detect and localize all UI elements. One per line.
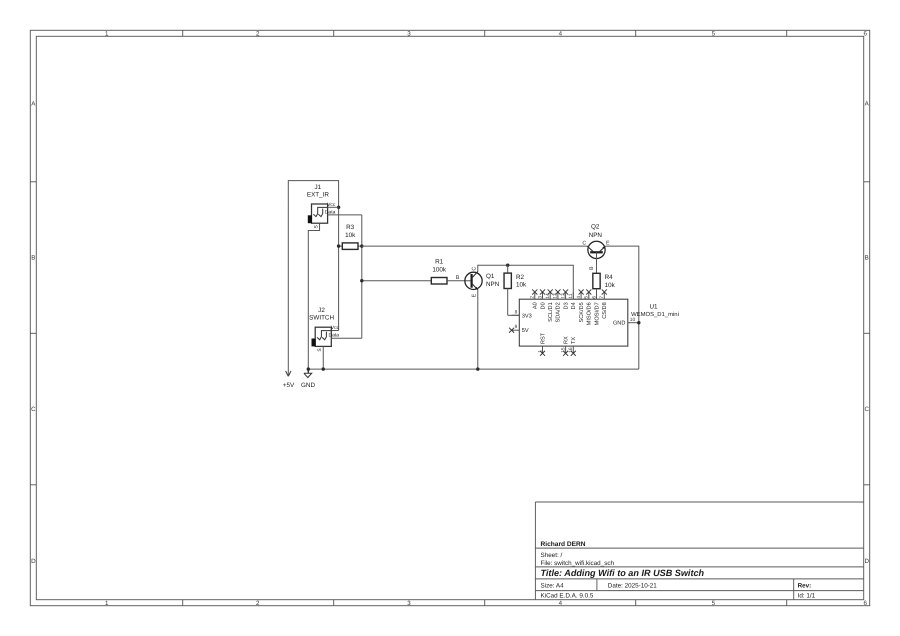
svg-text:6: 6 xyxy=(863,600,867,607)
wire Q1 collector to D4 xyxy=(478,265,574,299)
svg-text:Sheet: /: Sheet: / xyxy=(541,552,563,559)
junction R3 left xyxy=(337,244,340,247)
svg-text:Title: Adding Wifi to an IR US: Title: Adding Wifi to an IR USB Switch xyxy=(541,568,705,578)
U1 pin MISO/D6 (5) no-connect xyxy=(584,289,593,325)
svg-text:C: C xyxy=(864,406,869,413)
svg-text:11: 11 xyxy=(568,293,574,298)
svg-text:NPN: NPN xyxy=(589,232,603,239)
resistor R4 xyxy=(593,273,616,299)
junction U1 GND right rail xyxy=(637,321,640,324)
resistor R1 xyxy=(431,259,447,285)
power symbol +5V xyxy=(283,181,339,389)
svg-text:100k: 100k xyxy=(432,267,447,274)
svg-text:EXT_IR: EXT_IR xyxy=(307,192,329,199)
svg-text:SDA/D2: SDA/D2 xyxy=(555,302,562,322)
wire J1 Data xyxy=(328,214,362,216)
junction ground rail at J2 sleeve xyxy=(322,367,325,370)
junction J1 Vcc xyxy=(337,206,340,209)
U1 pin TX (16) no-connect xyxy=(568,337,577,356)
svg-text:Q2: Q2 xyxy=(591,224,600,231)
svg-text:GND: GND xyxy=(613,321,625,327)
wire data to R1 xyxy=(362,280,432,282)
wire Q2 base to R4 xyxy=(596,252,598,273)
transistor Q1 xyxy=(456,267,500,298)
wire J1 sleeve to ground rail xyxy=(308,223,319,369)
svg-text:R4: R4 xyxy=(605,274,614,281)
U1 pin SDA/D2 (13) no-connect xyxy=(553,289,562,322)
svg-text:4: 4 xyxy=(576,296,582,299)
svg-text:6: 6 xyxy=(591,296,597,299)
svg-text:R1: R1 xyxy=(435,259,444,266)
connector J2 SWITCH xyxy=(309,307,339,351)
U1 pin D4 (11) xyxy=(568,292,577,309)
svg-text:GND: GND xyxy=(301,382,315,389)
svg-text:MOSI/D7: MOSI/D7 xyxy=(593,302,600,325)
svg-text:SCL/D1: SCL/D1 xyxy=(547,302,554,322)
svg-text:R3: R3 xyxy=(346,224,355,231)
svg-text:Rev:: Rev: xyxy=(798,582,812,589)
svg-text:10k: 10k xyxy=(345,232,356,239)
svg-text:D4: D4 xyxy=(571,302,577,309)
svg-text:R2: R2 xyxy=(516,274,525,281)
U1 pin D3 (12) no-connect xyxy=(560,289,569,309)
svg-text:E: E xyxy=(472,293,478,297)
svg-text:3: 3 xyxy=(407,600,411,607)
wire Q1 emitter to ground rail xyxy=(477,290,479,369)
svg-text:6: 6 xyxy=(863,30,867,37)
U1 pin A0 (2) no-connect xyxy=(530,289,539,309)
wire data vertical J1 to J2 xyxy=(361,215,363,338)
svg-text:5: 5 xyxy=(712,600,716,607)
svg-text:J2: J2 xyxy=(318,307,325,314)
junction R2 top xyxy=(506,264,509,267)
svg-text:D0: D0 xyxy=(540,302,546,309)
junction ground rail at GND xyxy=(307,367,310,370)
svg-text:4: 4 xyxy=(559,600,563,607)
U1 pin D0 (3) no-connect xyxy=(537,289,546,309)
junction Q1 emitter rail xyxy=(476,367,479,370)
connector J1 EXT_IR xyxy=(307,184,339,228)
svg-text:2: 2 xyxy=(256,600,260,607)
svg-text:3: 3 xyxy=(537,296,543,299)
svg-text:B: B xyxy=(31,255,35,262)
svg-text:16: 16 xyxy=(568,347,574,353)
svg-text:5: 5 xyxy=(712,30,716,37)
U1 pin SCL/D1 (14) no-connect xyxy=(545,289,554,321)
svg-text:C: C xyxy=(582,241,586,247)
svg-text:1: 1 xyxy=(105,600,109,607)
svg-text:Vcc: Vcc xyxy=(331,325,340,331)
svg-text:D: D xyxy=(864,558,869,565)
U1 pin 3V3 (8) xyxy=(512,309,532,319)
svg-text:2: 2 xyxy=(256,30,260,37)
wire ground rail xyxy=(308,368,639,370)
U1 pin RX (15) no-connect xyxy=(560,336,569,356)
svg-text:A0: A0 xyxy=(533,302,539,309)
U1 pin 5V (9) no-connect xyxy=(509,324,529,334)
svg-text:10k: 10k xyxy=(516,282,527,289)
svg-text:10k: 10k xyxy=(605,282,616,289)
svg-text:5: 5 xyxy=(584,296,590,299)
svg-text:MISO/D6: MISO/D6 xyxy=(586,302,593,325)
svg-text:10: 10 xyxy=(630,317,636,323)
wire J2 sleeve xyxy=(322,346,324,369)
svg-text:WEMOS_D1_mini: WEMOS_D1_mini xyxy=(631,311,679,318)
wire J2 Data xyxy=(331,337,362,339)
svg-text:2: 2 xyxy=(530,296,536,299)
svg-text:D3: D3 xyxy=(563,302,569,309)
svg-text:SCK/D5: SCK/D5 xyxy=(578,302,585,322)
svg-text:B: B xyxy=(865,255,869,262)
svg-text:3V3: 3V3 xyxy=(522,313,532,319)
transistor Q2 xyxy=(582,224,610,270)
svg-text:1: 1 xyxy=(105,30,109,37)
svg-text:7: 7 xyxy=(599,296,605,299)
svg-text:CS/D8: CS/D8 xyxy=(601,302,608,318)
svg-text:Q1: Q1 xyxy=(486,273,495,280)
svg-text:5V: 5V xyxy=(522,328,529,334)
svg-text:KiCad E.D.A. 9.0.5: KiCad E.D.A. 9.0.5 xyxy=(541,593,594,600)
svg-text:J1: J1 xyxy=(314,184,321,191)
svg-text:15: 15 xyxy=(560,347,566,353)
svg-text:8: 8 xyxy=(515,309,518,315)
svg-text:TX: TX xyxy=(571,337,577,344)
svg-text:+5V: +5V xyxy=(283,382,295,389)
U1 pin CS/D8 (7) no-connect xyxy=(599,289,608,318)
IC U1 WEMOS_D1_mini body xyxy=(519,299,679,346)
svg-text:3: 3 xyxy=(407,30,411,37)
svg-text:B: B xyxy=(589,266,595,270)
wire Vcc vertical J1 to J2 xyxy=(331,207,338,330)
svg-text:D: D xyxy=(31,558,36,565)
svg-text:C: C xyxy=(472,267,478,271)
svg-text:C: C xyxy=(31,406,36,413)
svg-text:File: switch_wifi.kicad_sch: File: switch_wifi.kicad_sch xyxy=(541,560,615,567)
svg-text:Id: 1/1: Id: 1/1 xyxy=(798,593,816,600)
U1 pin SCK/D5 (4) no-connect xyxy=(576,289,585,322)
resistor R2 xyxy=(504,265,527,315)
junction R3 right xyxy=(360,244,363,247)
svg-text:9: 9 xyxy=(515,324,518,330)
U1 pin MOSI/D7 (6) xyxy=(591,292,600,325)
U1 pin GND (10) xyxy=(613,317,639,327)
resistor R3 xyxy=(339,224,362,250)
svg-text:NPN: NPN xyxy=(486,281,500,288)
svg-text:SWITCH: SWITCH xyxy=(309,315,334,322)
svg-text:4: 4 xyxy=(559,30,563,37)
svg-text:RX: RX xyxy=(563,336,569,344)
U1 pin RST (1) no-connect xyxy=(537,332,546,356)
svg-text:Date: 2025-10-21: Date: 2025-10-21 xyxy=(608,582,658,589)
ground GND xyxy=(301,369,315,389)
svg-text:Richard DERN: Richard DERN xyxy=(541,541,586,548)
svg-text:Size: A4: Size: A4 xyxy=(541,582,565,589)
wire R1 to Q1 base xyxy=(447,280,472,282)
svg-text:U1: U1 xyxy=(649,303,658,310)
junction data R1 tap xyxy=(360,279,363,282)
svg-text:RST: RST xyxy=(540,332,546,344)
svg-text:B: B xyxy=(456,275,460,281)
wire R3 to Q2 collector xyxy=(362,245,587,247)
svg-text:E: E xyxy=(606,240,610,246)
wire Q2 emitter to right rail xyxy=(605,246,638,369)
